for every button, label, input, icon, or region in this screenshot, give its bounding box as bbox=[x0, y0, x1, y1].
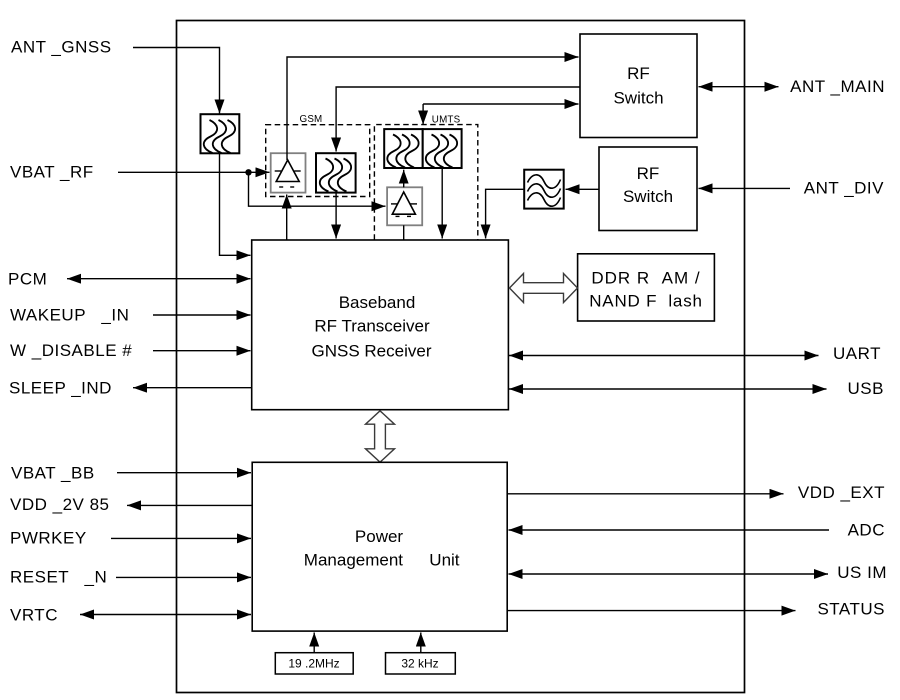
RF switch diversity bbox=[599, 147, 697, 231]
wire GSM PA output to RF switch bbox=[287, 57, 579, 160]
svg-text:Power: Power bbox=[355, 527, 404, 546]
wire UMTS RX filter to baseband bbox=[441, 168, 443, 239]
filter UMTS RX SAW bbox=[423, 129, 462, 168]
wire ANT_DIV bbox=[699, 187, 791, 189]
svg-text:SLEEP _IND: SLEEP _IND bbox=[9, 379, 112, 398]
wire 19.2MHz to PMU bbox=[313, 633, 315, 653]
wire STATUS bbox=[508, 610, 796, 612]
svg-text:RF Transceiver: RF Transceiver bbox=[314, 317, 430, 336]
wire 32kHz to PMU bbox=[420, 633, 422, 653]
svg-text:32 kHz: 32 kHz bbox=[401, 657, 438, 671]
wire VRTC bbox=[80, 614, 251, 616]
wire baseband to GSM PA bbox=[286, 195, 288, 241]
wire ADC bbox=[509, 529, 830, 531]
svg-text:VDD _2V 85: VDD _2V 85 bbox=[10, 495, 110, 514]
svg-text:ANT _DIV: ANT _DIV bbox=[804, 179, 884, 198]
svg-text:RF: RF bbox=[627, 64, 650, 83]
wire VBAT_BB bbox=[117, 472, 251, 474]
hollow arrow baseband-PMU bbox=[366, 411, 395, 462]
svg-text:Unit: Unit bbox=[429, 551, 460, 570]
svg-text:WAKEUP _IN: WAKEUP _IN bbox=[10, 306, 129, 325]
GSM dashed box bbox=[266, 125, 370, 197]
svg-text:VDD _EXT: VDD _EXT bbox=[798, 483, 885, 502]
svg-text:19 .2MHz: 19 .2MHz bbox=[288, 657, 339, 671]
svg-text:GNSS Receiver: GNSS Receiver bbox=[312, 342, 432, 361]
wire PCM bbox=[67, 278, 251, 280]
svg-text:USB: USB bbox=[848, 379, 884, 398]
filter GSM RX SAW bbox=[316, 153, 356, 192]
wire RESET_N bbox=[116, 576, 251, 578]
wire VBAT_RF to UMTS amp bbox=[249, 172, 386, 206]
wire ANT_MAIN bbox=[699, 86, 779, 88]
amplifier UMTS PA bbox=[387, 187, 422, 225]
wire SLEEP_IND bbox=[133, 387, 251, 389]
wire diversity filter to baseband bbox=[486, 189, 525, 238]
svg-text:VBAT _RF: VBAT _RF bbox=[10, 163, 94, 182]
wire UMTS TX filter to RF switch bbox=[423, 103, 578, 105]
block DDR RAM / NAND Flash bbox=[578, 254, 715, 321]
svg-text:PWRKEY: PWRKEY bbox=[10, 529, 87, 548]
svg-text:RF: RF bbox=[637, 164, 660, 183]
filter UMTS TX SAW bbox=[384, 129, 423, 168]
svg-text:VBAT _BB: VBAT _BB bbox=[11, 464, 95, 483]
svg-text:DDR R AM /: DDR R AM / bbox=[591, 269, 700, 288]
svg-text:NAND F lash: NAND F lash bbox=[589, 292, 703, 311]
block Baseband bbox=[252, 240, 509, 410]
junction dot VBAT_RF bbox=[245, 169, 251, 175]
wire WAKEUP_IN bbox=[153, 314, 251, 316]
UMTS dashed box bbox=[374, 125, 477, 240]
wire baseband to UMTS PA bbox=[403, 225, 405, 240]
svg-text:Management: Management bbox=[304, 551, 404, 570]
svg-text:RESET _N: RESET _N bbox=[10, 568, 107, 587]
RF switch main bbox=[580, 34, 697, 138]
wire VDD_2V85 bbox=[127, 504, 252, 506]
svg-text:VRTC: VRTC bbox=[10, 606, 58, 625]
crystal 19.2MHz bbox=[275, 653, 353, 674]
crystal 32kHz bbox=[386, 653, 456, 674]
svg-text:STATUS: STATUS bbox=[817, 599, 885, 618]
wire VBAT_RF bbox=[118, 171, 249, 173]
wire PWRKEY bbox=[111, 537, 251, 539]
svg-text:Switch: Switch bbox=[623, 187, 673, 206]
hollow arrow baseband-DDR bbox=[510, 274, 578, 303]
wire VDD_EXT bbox=[508, 493, 784, 495]
svg-text:PCM: PCM bbox=[8, 270, 47, 289]
svg-text:GSM: GSM bbox=[300, 114, 323, 125]
wire GSM RX filter to baseband bbox=[335, 193, 337, 239]
wire RF switch diversity to filter bbox=[566, 188, 600, 190]
svg-text:Switch: Switch bbox=[613, 89, 663, 108]
wire RF switch into UMTS box bbox=[422, 104, 424, 125]
amplifier GSM PA bbox=[271, 153, 306, 192]
wire USIM bbox=[509, 573, 829, 575]
svg-text:UART: UART bbox=[833, 344, 881, 363]
wire GNSS filter to baseband bbox=[220, 153, 251, 255]
wire USB bbox=[509, 388, 827, 390]
svg-text:ANT _GNSS: ANT _GNSS bbox=[11, 38, 112, 57]
svg-text:Baseband: Baseband bbox=[339, 293, 416, 312]
module outline bbox=[177, 21, 745, 693]
wire UMTS PA to TX filter bbox=[403, 170, 405, 188]
filter GNSS SAW bbox=[201, 114, 240, 153]
wire RF switch to GSM RX filter bbox=[336, 87, 580, 152]
svg-text:UMTS: UMTS bbox=[432, 115, 461, 126]
svg-text:US IM: US IM bbox=[837, 563, 887, 582]
svg-text:ANT _MAIN: ANT _MAIN bbox=[790, 77, 885, 96]
svg-text:W _DISABLE #: W _DISABLE # bbox=[10, 341, 132, 360]
wire W_DISABLE# bbox=[153, 350, 251, 352]
block Power Management Unit bbox=[252, 462, 507, 631]
wire UART bbox=[509, 355, 819, 357]
filter diversity RX bbox=[524, 170, 564, 209]
wire ANT_GNSS to GNSS filter bbox=[133, 48, 220, 114]
svg-text:ADC: ADC bbox=[848, 520, 885, 539]
